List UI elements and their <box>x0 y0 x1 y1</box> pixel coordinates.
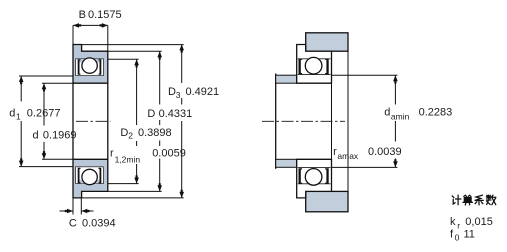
dim D line <box>159 51 161 191</box>
arrow D3 top <box>179 44 184 52</box>
side face line right <box>107 83 109 159</box>
bearing upper (right view, unfilled) <box>297 45 332 84</box>
svg-text:0.0039: 0.0039 <box>368 146 402 158</box>
dim da ext lower <box>332 166 398 168</box>
shaft abutment upper <box>276 75 297 83</box>
svg-text:3: 3 <box>176 90 181 100</box>
outer ring upper (with flange) <box>73 45 108 84</box>
svg-text:D: D <box>147 108 155 120</box>
arrow d1 top <box>19 76 24 84</box>
cavity lower <box>76 167 104 184</box>
inner surfaces lower <box>298 168 331 184</box>
outer ring lower (with flange) <box>73 159 108 198</box>
svg-text:0,015: 0,015 <box>465 216 493 228</box>
shield marks upper right view <box>299 59 303 75</box>
svg-text:1: 1 <box>16 112 21 122</box>
dim D ext upper <box>108 50 162 52</box>
dim C ext right <box>80 198 82 215</box>
svg-text:0.1969: 0.1969 <box>43 130 77 142</box>
dim B ext right <box>107 25 109 51</box>
shield left lower <box>78 168 81 184</box>
dim D3 ext lower <box>81 197 183 199</box>
arrow C right <box>81 209 89 214</box>
centerline right view <box>262 120 345 122</box>
svg-text:0.0059: 0.0059 <box>152 147 186 159</box>
svg-text:r: r <box>110 147 114 159</box>
dim C tail left <box>60 210 74 212</box>
arrow da bottom <box>393 159 398 167</box>
svg-text:d: d <box>384 107 390 119</box>
svg-text:amax: amax <box>337 151 359 161</box>
dim d line <box>43 83 45 159</box>
char xi <box>475 195 483 205</box>
dim d ext lower <box>42 158 73 160</box>
Chinese title 计算系数 (drawn strokes) <box>452 195 496 205</box>
dim D2 line <box>136 59 138 183</box>
svg-text:k: k <box>450 216 456 228</box>
shield left upper <box>78 59 81 75</box>
arrow B left <box>73 23 81 28</box>
svg-text:0.2283: 0.2283 <box>419 107 453 119</box>
dim d1 ext lower <box>19 166 73 168</box>
ball upper right view <box>305 57 322 74</box>
dim D3 ext upper <box>81 44 184 46</box>
arrow D2 bottom <box>134 175 139 183</box>
arrow D top <box>157 51 162 59</box>
dim B ext left <box>72 25 74 44</box>
shaft abutment lower <box>276 159 297 167</box>
svg-text:D: D <box>120 127 128 139</box>
arrow d1 bottom <box>19 158 24 166</box>
svg-text:0: 0 <box>455 233 460 243</box>
arrow C left <box>65 209 73 214</box>
dim da line <box>394 75 396 167</box>
dim D2 ext upper <box>108 58 139 60</box>
arrowheads left view <box>19 23 184 213</box>
arrow D3 bottom <box>179 190 184 198</box>
ball lower right view <box>305 169 322 186</box>
svg-text:2: 2 <box>128 131 133 141</box>
right view texts <box>333 107 493 243</box>
svg-text:11: 11 <box>464 229 475 241</box>
arrow D2 top <box>134 59 139 67</box>
outer ring groove wedge lower <box>78 180 101 183</box>
dim d ext upper <box>42 82 73 84</box>
arrow D bottom <box>157 183 162 191</box>
dim D3 line <box>181 45 183 198</box>
arrow B right <box>100 23 108 28</box>
svg-text:0.2677: 0.2677 <box>27 108 61 120</box>
shield right lower <box>99 168 102 184</box>
dim da ext upper <box>332 74 398 76</box>
char suan <box>463 195 472 205</box>
svg-text:0.0394: 0.0394 <box>82 218 116 230</box>
dim d1 ext upper <box>19 75 73 77</box>
svg-text:0.1575: 0.1575 <box>88 9 122 21</box>
shield right upper <box>99 59 102 75</box>
svg-text:0.4921: 0.4921 <box>186 86 220 98</box>
svg-text:0.4331: 0.4331 <box>159 108 193 120</box>
svg-text:0.3898: 0.3898 <box>138 127 172 139</box>
arrow da top <box>393 75 398 83</box>
char ji <box>452 195 461 204</box>
dim D ext lower <box>108 190 162 192</box>
centerline left view <box>76 120 111 122</box>
housing block lower <box>306 191 348 211</box>
svg-text:d: d <box>33 130 39 142</box>
housing bore line <box>347 51 349 191</box>
shaft shoulder face line <box>275 74 277 169</box>
svg-text:r: r <box>457 221 460 231</box>
dim C tail right <box>81 210 93 212</box>
ball lower <box>82 169 97 184</box>
svg-text:1,2min: 1,2min <box>115 155 141 165</box>
shield marks lower right view <box>299 168 303 184</box>
inner surfaces upper <box>298 59 331 75</box>
svg-text:B: B <box>79 9 86 21</box>
arrow d top <box>42 83 47 91</box>
side face line left <box>72 83 74 159</box>
char shu <box>487 195 496 204</box>
svg-text:C: C <box>69 218 77 230</box>
ball upper <box>82 58 97 73</box>
svg-text:amin: amin <box>391 112 410 122</box>
bearing right face line between sections <box>331 83 333 159</box>
cavity upper <box>76 59 104 76</box>
dim B line <box>73 24 108 26</box>
arrow d bottom <box>42 151 47 159</box>
dim d1 line <box>20 76 22 167</box>
bearing lower (right view, unfilled) <box>297 159 332 198</box>
svg-text:d: d <box>9 108 15 120</box>
outer ring groove wedge upper <box>78 59 101 62</box>
housing block upper <box>306 33 348 51</box>
dim C ext left <box>72 198 74 215</box>
dim D2 ext lower <box>108 183 139 185</box>
